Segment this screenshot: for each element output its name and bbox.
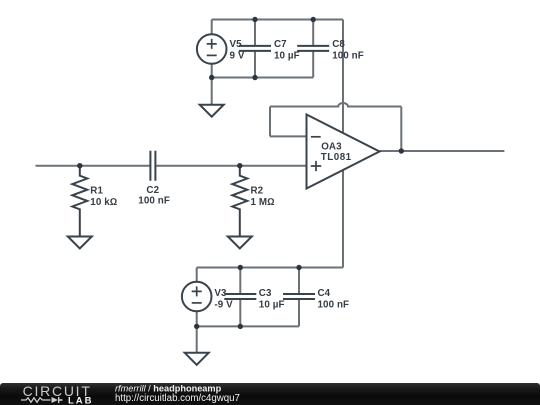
op-amp OA3 triangle	[307, 115, 380, 189]
svg-text:9 V: 9 V	[230, 51, 245, 62]
wire V5 bottom lead	[211, 64, 213, 78]
junction dot C7 bottom	[252, 75, 257, 80]
wire V+ supply vertical to op-amp top pin	[342, 20, 344, 134]
wire output	[380, 150, 505, 152]
junction dot R1 top	[77, 163, 82, 168]
svg-text:C3: C3	[259, 288, 272, 299]
V3 minus marker	[192, 302, 202, 304]
wire capacitor C8 top lead	[312, 20, 314, 46]
junction dot C4 top	[296, 265, 301, 270]
svg-text:10 kΩ: 10 kΩ	[90, 197, 117, 208]
capacitor C3 plates	[224, 294, 256, 299]
wire feedback vertical from output	[400, 107, 402, 152]
ground symbol under V3	[185, 353, 209, 365]
wire capacitor C4 bottom lead	[298, 299, 300, 326]
V5 minus marker	[207, 54, 217, 56]
wire to ground from V3	[196, 326, 198, 352]
wire top section bottom rail	[212, 77, 314, 79]
footer bar	[0, 383, 540, 405]
svg-text:100 nF: 100 nF	[318, 299, 350, 310]
resistor R1	[72, 166, 87, 237]
svg-text:C8: C8	[332, 39, 345, 50]
svg-text:C7: C7	[274, 39, 287, 50]
wire V5 top lead	[211, 20, 213, 35]
svg-text:C2: C2	[146, 185, 159, 196]
wire capacitor C7 top lead	[254, 20, 256, 46]
wire main input line left	[36, 165, 151, 167]
wire feedback down to inverting input	[269, 107, 271, 137]
wire V- supply from op-amp bottom pin down	[342, 170, 344, 268]
svg-text:http://circuitlab.com/c4gwqu7: http://circuitlab.com/c4gwqu7	[115, 393, 240, 404]
junction dot C8 top	[311, 17, 316, 22]
svg-text:LAB: LAB	[68, 396, 93, 405]
svg-text:OA3: OA3	[321, 141, 342, 152]
wire capacitor C3 top lead	[239, 268, 241, 295]
wire capacitor C7 bottom lead	[254, 51, 256, 78]
CircuitLab logo diode symbol	[52, 397, 59, 403]
ground symbol under R1	[68, 237, 92, 249]
V3 plus marker	[192, 286, 202, 296]
wire to ground from V5	[211, 78, 213, 105]
ground symbol below V5	[200, 105, 224, 117]
wire inverting input	[270, 135, 307, 137]
junction dot output node	[399, 148, 404, 153]
wire V3 top lead	[196, 268, 198, 282]
junction dot V5 bottom	[209, 75, 214, 80]
svg-text:TL081: TL081	[321, 152, 352, 163]
wire capacitor C8 bottom lead	[312, 51, 314, 78]
resistor R2	[232, 166, 247, 237]
capacitor C8 plates	[297, 46, 329, 51]
svg-text:V3: V3	[214, 288, 227, 299]
capacitor C4 plates	[283, 294, 315, 299]
junction dot V3 bottom	[194, 324, 199, 329]
svg-text:1 MΩ: 1 MΩ	[251, 197, 275, 208]
junction dot C3 bottom	[238, 324, 243, 329]
ground symbol under R2	[228, 237, 252, 249]
op-amp OA3 inverting marker	[311, 136, 321, 138]
svg-text:R1: R1	[90, 186, 103, 197]
junction dot C7 top	[252, 17, 257, 22]
voltage source V5	[197, 34, 227, 64]
CircuitLab logo resistor-diode squiggle	[21, 398, 51, 402]
svg-text:10 µF: 10 µF	[259, 299, 285, 310]
svg-text:100 nF: 100 nF	[138, 196, 170, 207]
wire bottom section bottom rail	[197, 325, 299, 327]
op-amp OA3 non-inverting marker	[311, 161, 321, 171]
svg-text:R2: R2	[251, 186, 264, 197]
junction dot C3 top	[238, 265, 243, 270]
wire V3 bottom lead	[196, 311, 198, 326]
svg-text:C4: C4	[318, 288, 331, 299]
wire capacitor C4 top lead	[298, 268, 300, 295]
wire feedback horizontal with hop over supply	[270, 103, 401, 106]
svg-text:V5: V5	[230, 39, 243, 50]
capacitor C7 plates	[239, 46, 271, 51]
wire capacitor C3 bottom lead	[239, 299, 241, 326]
capacitor C2 plates	[150, 151, 155, 181]
svg-text:10 µF: 10 µF	[274, 51, 300, 62]
wire bottom section top rail	[197, 267, 343, 269]
wire top rail V+	[212, 19, 343, 21]
svg-text:100 nF: 100 nF	[332, 51, 364, 62]
wire main input line right	[155, 165, 306, 167]
svg-text:-9 V: -9 V	[214, 299, 233, 310]
V5 plus marker	[207, 39, 217, 49]
voltage source V3	[182, 282, 212, 312]
junction dot R2 top	[237, 163, 242, 168]
